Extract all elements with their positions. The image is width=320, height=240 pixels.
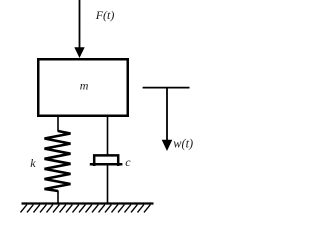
svg-text:c: c — [125, 155, 131, 169]
spring k zigzag — [45, 131, 71, 191]
displacement reference horizontal line — [143, 87, 190, 89]
spring top connector wire — [57, 115, 59, 132]
svg-text:w(t): w(t) — [173, 136, 193, 150]
ground line — [22, 202, 154, 204]
svg-text:m: m — [80, 79, 89, 93]
damper top connector wire — [107, 115, 109, 156]
displacement arrow w(t) shaft — [166, 87, 168, 141]
svg-text:k: k — [30, 156, 36, 170]
damper bottom connector wire — [107, 164, 109, 204]
damper c cylinder cup — [94, 155, 118, 166]
spring bottom connector wire — [57, 191, 59, 205]
damper c piston plate — [90, 163, 123, 166]
mass m block — [38, 59, 128, 116]
displacement arrow w(t) head — [162, 140, 173, 151]
force arrow F(t) head — [74, 47, 84, 58]
force arrow F(t) shaft — [79, 0, 81, 49]
svg-text:F(t): F(t) — [95, 8, 115, 22]
ground hatching — [21, 205, 151, 213]
